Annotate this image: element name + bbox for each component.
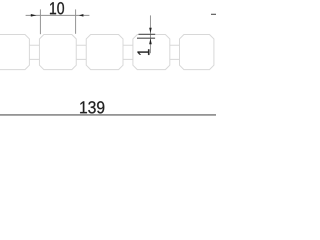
dimension 139: dimension line (cropped both ends) bbox=[0, 114, 216, 116]
link bridge 3 (between squares 3-4) bbox=[123, 45, 133, 59]
stub of adjacent dimension line (top-right, cropped) bbox=[211, 13, 216, 15]
dimension 10: extension line right bbox=[75, 9, 77, 33]
dimension 139: value label "139" bbox=[80, 101, 104, 113]
dimension 10: value label "10" bbox=[50, 2, 64, 14]
link bridge 1 (between squares 1-2) bbox=[29, 45, 39, 59]
dimension 1: value label "1" (rotated 90 CCW) bbox=[137, 49, 149, 54]
dimension 1: upper feature line (top edge of cut mark) bbox=[139, 33, 156, 35]
pad square 1 (cropped at left edge) bbox=[0, 35, 29, 70]
link bridge 2 (between squares 2-3) bbox=[76, 45, 86, 59]
dimension 1: upper arrowhead (points down) bbox=[149, 28, 152, 33]
dimension 1: vertical dimension line bbox=[149, 15, 151, 53]
dimension 10: right arrowhead bbox=[79, 14, 84, 17]
link bridge 4 (between squares 4-5) bbox=[170, 45, 180, 59]
dimension 1: lower arrowhead (points up) bbox=[149, 38, 152, 44]
pad square 5 (cropped at right edge) bbox=[180, 35, 214, 70]
pad square 3 bbox=[86, 35, 123, 70]
pad square 2 bbox=[39, 35, 76, 70]
dimension 1: lower feature line (bottom edge of cut mark) bbox=[137, 37, 155, 39]
dimension 10: dimension line bbox=[26, 14, 90, 16]
dimension 10: extension line left bbox=[39, 9, 41, 34]
pad square 4 bbox=[133, 35, 170, 70]
dimension 10: left arrowhead bbox=[31, 14, 37, 17]
